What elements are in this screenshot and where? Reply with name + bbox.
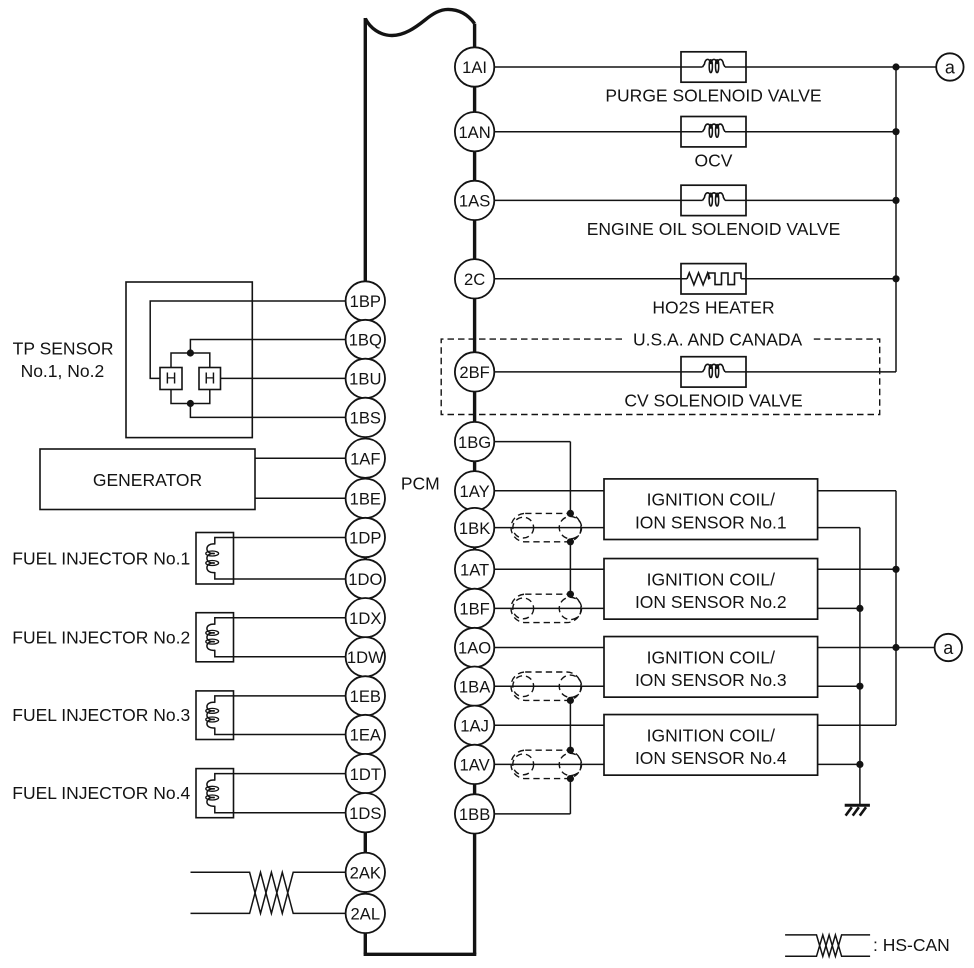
svg-text:1AO: 1AO [458, 639, 491, 658]
fuel injector No.4 coil [207, 780, 215, 806]
bottom harness wire [364, 953, 477, 956]
wire 1BG to shield bus [475, 441, 571, 443]
terminal 1AI [455, 47, 494, 86]
terminal 1AT [455, 550, 494, 589]
component box HO2S HEATER [681, 264, 746, 294]
terminal 1AJ [455, 706, 494, 745]
svg-text:1BS: 1BS [350, 409, 381, 428]
svg-text:a: a [943, 638, 954, 658]
terminal 1BB [455, 794, 494, 833]
shielded cable symbol No.2 [511, 594, 581, 622]
HS-CAN legend twisted pair symbol [785, 935, 870, 956]
fuel injector No.3 box [196, 691, 234, 740]
shielded cable symbol No.3 [511, 672, 581, 700]
TP element H1 [160, 368, 182, 390]
terminal 2C [455, 259, 494, 298]
svg-text:CV SOLENOID VALVE: CV SOLENOID VALVE [624, 391, 802, 411]
component box ENGINE OIL SOLENOID VALVE [681, 185, 746, 215]
wire 2BF to component [475, 371, 703, 373]
svg-text:1BQ: 1BQ [349, 331, 382, 350]
component box OCV [681, 117, 746, 147]
svg-text:1BG: 1BG [458, 433, 491, 452]
terminal a (top) [936, 53, 963, 80]
svg-text:H: H [204, 371, 215, 388]
svg-text:1AV: 1AV [460, 756, 490, 775]
terminal 1EB [346, 676, 385, 715]
coil symbol OCV [703, 124, 726, 132]
svg-text:1AN: 1AN [458, 123, 490, 142]
terminal 1DT [346, 754, 385, 793]
terminal 1DO [346, 559, 385, 598]
wire No.4 out top [818, 724, 896, 726]
wire 1BS [190, 404, 365, 418]
wire injector No.2 top [215, 618, 365, 625]
wire 2BF component to bus [725, 371, 896, 373]
fuel injector No.1 coil [207, 544, 215, 573]
junction dot engine oil [892, 197, 899, 204]
shield bus segment shield4 to 1BB [569, 779, 571, 814]
svg-text:1AJ: 1AJ [460, 717, 489, 736]
junction dot OCV [892, 128, 899, 135]
ground bus [859, 528, 861, 806]
terminal 1BA [455, 667, 494, 706]
node TP bottom [187, 400, 194, 407]
wire No.4 top into box [475, 724, 604, 726]
wire 1AI component to bus [725, 66, 936, 68]
terminal 2BF [455, 352, 494, 391]
shield bus segment shield1 to shield2 [569, 542, 571, 594]
terminal 1AY [455, 471, 494, 510]
svg-text:FUEL INJECTOR No.1: FUEL INJECTOR No.1 [12, 548, 190, 568]
svg-text:1DP: 1DP [349, 529, 381, 548]
ignition coil box No.1 [604, 479, 818, 540]
junction dot 1AI/a [892, 63, 899, 70]
junction dot gnd No.2 [856, 605, 863, 612]
svg-text:1BE: 1BE [350, 490, 381, 509]
wire No.4 out bottom [818, 763, 860, 765]
wire 2C to component [475, 278, 687, 280]
svg-text:FUEL INJECTOR No.3: FUEL INJECTOR No.3 [12, 705, 190, 725]
svg-text:1BA: 1BA [459, 677, 491, 696]
wire injector No.4 top [215, 774, 365, 781]
svg-text:2AL: 2AL [351, 905, 381, 924]
svg-text:U.S.A. AND CANADA: U.S.A. AND CANADA [633, 330, 803, 350]
terminal 1BU [346, 359, 385, 398]
terminal 1AF [346, 439, 385, 478]
wire No.2 out bottom [818, 607, 860, 609]
wire 1AF [255, 457, 365, 459]
terminal 1BK [455, 508, 494, 547]
junction dot a-bus No.2 [892, 566, 899, 573]
svg-text:PCM: PCM [401, 473, 440, 493]
svg-text:FUEL INJECTOR No.2: FUEL INJECTOR No.2 [12, 627, 190, 647]
U.S.A. AND CANADA dashed region [441, 339, 880, 414]
shield junction dots [567, 510, 574, 517]
svg-text:ION SENSOR No.4: ION SENSOR No.4 [635, 748, 787, 768]
svg-text:1AF: 1AF [350, 449, 380, 468]
heater resistor symbol [687, 273, 710, 285]
ignition coil box No.3 [604, 637, 818, 698]
main harness left vertical wire [364, 18, 367, 954]
svg-text:1BF: 1BF [459, 600, 489, 619]
wire No.1 bottom into box [475, 527, 604, 529]
wire No.3 out bottom [818, 685, 860, 687]
svg-text:1DW: 1DW [347, 648, 384, 667]
terminal 1BF [455, 589, 494, 628]
coil symbol CV SOLENOID VALVE [703, 364, 726, 372]
svg-text:H: H [165, 371, 176, 388]
ground symbol [845, 804, 870, 807]
svg-text:1BB: 1BB [459, 805, 490, 824]
svg-text:a: a [945, 58, 956, 78]
svg-text:HO2S HEATER: HO2S HEATER [652, 297, 774, 317]
junction dot a-bus No.3 [892, 644, 899, 651]
terminal 1DX [346, 598, 385, 637]
fuel injector No.2 coil [207, 624, 215, 650]
svg-text:ION SENSOR No.1: ION SENSOR No.1 [635, 512, 787, 532]
svg-text:1EA: 1EA [350, 726, 382, 745]
terminal 1DS [346, 793, 385, 832]
svg-text:FUEL INJECTOR No.4: FUEL INJECTOR No.4 [12, 783, 190, 803]
wire 1AS component to bus [725, 199, 896, 201]
terminal 1AN [455, 112, 494, 151]
svg-text:ENGINE OIL SOLENOID VALVE: ENGINE OIL SOLENOID VALVE [587, 219, 841, 239]
wire injector No.4 bottom [215, 806, 365, 813]
shield bus segment 1BG to shield1 [569, 442, 571, 514]
wire No.2 out top [818, 568, 896, 570]
shield bus segment shield3 to shield4 [569, 700, 571, 750]
svg-text:TP SENSOR: TP SENSOR [13, 338, 114, 358]
terminal a (right) [935, 634, 962, 661]
svg-text:IGNITION COIL/: IGNITION COIL/ [647, 569, 775, 589]
shielded cable symbol No.4 [511, 750, 581, 778]
generator box [40, 449, 255, 510]
wire No.3 out top [818, 647, 935, 649]
harness break wave at top [365, 9, 474, 35]
svg-text:2AK: 2AK [350, 864, 381, 883]
terminal 1BG [455, 422, 494, 461]
svg-text:No.1, No.2: No.1, No.2 [21, 361, 105, 381]
wire injector No.2 bottom [215, 650, 365, 657]
wire injector No.3 bottom [215, 728, 365, 735]
wire No.3 bottom into box [475, 685, 604, 687]
bus to terminal a (top) [895, 67, 897, 372]
svg-text:2BF: 2BF [459, 363, 489, 382]
terminal 1AO [455, 628, 494, 667]
svg-text:ION SENSOR No.3: ION SENSOR No.3 [635, 670, 787, 690]
fuel injector No.2 box [196, 613, 234, 662]
wire 1BE [255, 497, 365, 499]
main harness right vertical wire [473, 24, 476, 955]
TP element H2 [199, 368, 221, 390]
junction dot HO2S [892, 275, 899, 282]
terminal 1BQ [346, 320, 385, 359]
svg-text:OCV: OCV [695, 150, 733, 170]
terminal 1BS [346, 398, 385, 437]
ignition coil box No.2 [604, 559, 818, 620]
svg-text:1AY: 1AY [460, 482, 490, 501]
svg-text:PURGE SOLENOID VALVE: PURGE SOLENOID VALVE [605, 86, 821, 106]
ignition coil box No.4 [604, 715, 818, 776]
node TP top [187, 349, 194, 356]
wire No.1 top into box [475, 490, 604, 492]
wire No.2 top into box [475, 568, 604, 570]
wire 1BP [150, 301, 365, 378]
wire 1AI to component [475, 66, 703, 68]
wire No.3 top into box [475, 647, 604, 649]
terminal 2AK [346, 853, 385, 892]
svg-text:IGNITION COIL/: IGNITION COIL/ [647, 725, 775, 745]
wire No.4 bottom into box [475, 763, 604, 765]
wire 1BQ [190, 340, 365, 354]
svg-text:1DT: 1DT [350, 765, 381, 784]
svg-text:1DS: 1DS [349, 804, 381, 823]
svg-text:1BU: 1BU [349, 370, 381, 389]
terminal 2AL [346, 894, 385, 933]
shielded cable symbol No.1 [511, 513, 581, 541]
svg-text:IGNITION COIL/: IGNITION COIL/ [647, 647, 775, 667]
junction dot gnd No.3 [856, 683, 863, 690]
wire No.2 bottom into box [475, 607, 604, 609]
svg-text:2C: 2C [464, 270, 485, 289]
svg-text:1DO: 1DO [348, 570, 382, 589]
fuel injector No.1 box [196, 533, 234, 585]
twisted pair to 2AK/2AL [191, 872, 366, 913]
terminal 1BP [346, 281, 385, 320]
component box PURGE SOLENOID VALVE [681, 52, 746, 82]
svg-text:1EB: 1EB [350, 687, 381, 706]
terminal 1EA [346, 715, 385, 754]
wire 1BU [221, 377, 366, 379]
svg-text:1AS: 1AS [459, 192, 490, 211]
svg-text:1AT: 1AT [460, 561, 489, 580]
wire 1AS to component [475, 199, 703, 201]
svg-text:: HS-CAN: : HS-CAN [873, 935, 950, 955]
coil symbol PURGE SOLENOID VALVE [703, 59, 726, 67]
wire 1BB to shield bus [475, 813, 571, 815]
svg-text:1BK: 1BK [459, 519, 490, 538]
wire 2C component to bus [741, 278, 896, 280]
svg-text:IGNITION COIL/: IGNITION COIL/ [647, 490, 775, 510]
svg-text:GENERATOR: GENERATOR [93, 470, 202, 490]
terminal 1DP [346, 518, 385, 557]
wire 1AN component to bus [725, 131, 896, 133]
fuel injector No.4 box [196, 769, 234, 818]
terminal 1AS [455, 181, 494, 220]
wire injector No.1 top [215, 538, 365, 545]
wire No.1 out bottom [818, 527, 860, 529]
wire 1AN to component [475, 131, 703, 133]
wire injector No.1 bottom [215, 572, 365, 579]
junction dot gnd No.4 [856, 761, 863, 768]
fuel injector No.3 coil [207, 702, 215, 728]
TP sensor outer box [126, 282, 252, 438]
svg-text:1DX: 1DX [349, 609, 381, 628]
wire No.1 out top [818, 490, 896, 492]
wire injector No.3 top [215, 696, 365, 703]
terminal 1BE [346, 479, 385, 518]
TP sensor parallel loop [171, 353, 210, 368]
svg-text:1AI: 1AI [462, 58, 487, 77]
coil symbol ENGINE OIL SOLENOID VALVE [703, 193, 726, 201]
component box CV SOLENOID VALVE [681, 357, 746, 387]
svg-text:1BP: 1BP [350, 292, 381, 311]
bus to terminal a (right) [895, 491, 897, 726]
svg-text:ION SENSOR No.2: ION SENSOR No.2 [635, 592, 787, 612]
terminal 1AV [455, 745, 494, 784]
terminal 1DW [346, 637, 385, 676]
heater square wave symbol [708, 273, 741, 285]
